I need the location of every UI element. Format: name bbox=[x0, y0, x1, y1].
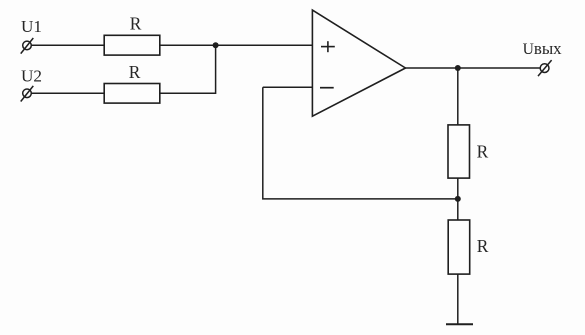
resistor R3 bbox=[448, 125, 470, 178]
resistor R2 bbox=[104, 84, 160, 104]
wire U1 terminal to R1 bbox=[31, 44, 104, 46]
terminal U1 bbox=[21, 38, 34, 54]
resistor R1 bbox=[104, 35, 160, 55]
wire U2 terminal to R2 bbox=[31, 92, 104, 94]
svg-text:R: R bbox=[477, 142, 489, 162]
svg-text:R: R bbox=[477, 236, 489, 256]
node B output junction bbox=[455, 65, 461, 71]
wire R4 to ground bbox=[457, 274, 459, 324]
minus input symbol bbox=[320, 87, 334, 89]
wire feedback left and bottom run bbox=[263, 87, 458, 199]
svg-text:Uвых: Uвых bbox=[523, 39, 563, 58]
ground bbox=[446, 323, 473, 325]
plus input symbol bbox=[321, 41, 335, 52]
svg-text:U1: U1 bbox=[21, 17, 42, 36]
svg-text:R: R bbox=[129, 62, 141, 82]
svg-text:R: R bbox=[130, 13, 142, 33]
wire R2 to node A bbox=[160, 45, 216, 93]
terminal U2 bbox=[21, 86, 34, 102]
terminal Uvyh bbox=[538, 60, 552, 76]
resistor R4 bbox=[448, 220, 470, 274]
wire feedback to minus input bbox=[263, 86, 313, 88]
node C feedback junction bbox=[455, 196, 461, 202]
wire R1 to op-amp plus input bbox=[160, 44, 313, 46]
wire op-amp output to terminal bbox=[406, 67, 541, 69]
svg-text:U2: U2 bbox=[21, 66, 42, 85]
wire node B down to R3 bbox=[457, 68, 459, 125]
wire R3 to node C bbox=[457, 178, 459, 220]
node A summing junction bbox=[213, 42, 219, 48]
op-amp U1 bbox=[312, 10, 405, 116]
